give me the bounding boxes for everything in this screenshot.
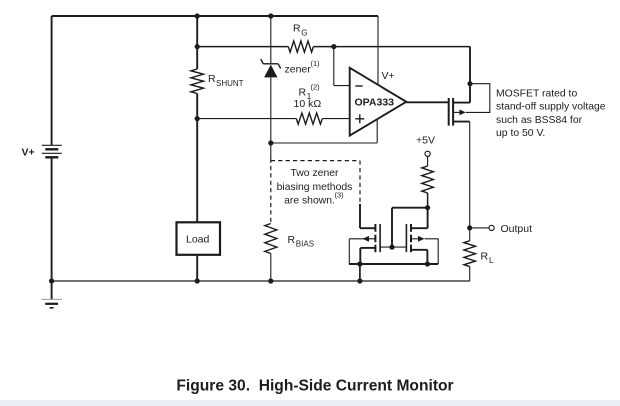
label MOSFET note: [496, 88, 606, 139]
svg-text:Load: Load: [186, 234, 210, 246]
resistor RG: [288, 23, 313, 53]
wire bottom ground rail: [52, 280, 470, 282]
svg-text:R: R: [288, 234, 296, 246]
wire to inverting input: [333, 47, 335, 86]
node top rail / zener branch: [268, 13, 273, 18]
zener diode D1: [261, 59, 320, 77]
svg-text:R: R: [208, 73, 216, 85]
transistor Q2 (mirror left): [349, 224, 380, 252]
wire shunt column: [196, 16, 198, 69]
wire mirror source rail: [349, 263, 438, 265]
svg-text:stand-off supply voltage: stand-off supply voltage: [496, 102, 606, 113]
wire feedback down to MOSFET source: [469, 47, 471, 103]
svg-text:such as BSS84 for: such as BSS84 for: [496, 115, 583, 126]
svg-text:(1): (1): [311, 59, 321, 68]
wire mirror gate feed vertical: [391, 208, 393, 247]
wire RBIAS bottom lead: [270, 254, 272, 282]
wire op-amp output to MOSFET gate: [406, 101, 448, 103]
transistor Q3 (mirror right): [406, 224, 427, 252]
node battery/ground junction: [49, 278, 54, 283]
wire dashed bias method 2 vertical: [359, 161, 361, 204]
svg-text:Figure 30. High-Side Current: Figure 30. High-Side Current Monitor: [176, 378, 453, 395]
node shunt bottom / R1 tap: [195, 116, 200, 121]
wire Q3 drain lead up: [427, 208, 429, 229]
battery V+: [22, 145, 62, 158]
node load / ground rail: [195, 278, 200, 283]
wire dashed bias method 2 horizontal: [271, 160, 360, 162]
resistor R1 10k: [294, 83, 323, 125]
transistor Q1 (BSS84 P-MOSFET): [449, 84, 490, 126]
terminal +5V: [425, 151, 430, 156]
wire zener cathode lead: [270, 16, 272, 64]
node Q2 source: [357, 261, 362, 266]
wire R1 left lead: [197, 118, 296, 120]
node shunt top / RG tap: [195, 44, 200, 49]
wire dashed bias method 1 (RBIAS): [270, 159, 272, 224]
svg-text:Two zener: Two zener: [291, 168, 339, 179]
svg-text:R: R: [293, 23, 301, 35]
wire +5V stem: [427, 156, 429, 166]
wire pullup bottom lead: [427, 193, 429, 208]
node RBIAS / ground rail: [268, 278, 273, 283]
label two zener methods note: [277, 168, 353, 207]
svg-text:V+: V+: [382, 70, 395, 82]
page footer strip: [0, 400, 620, 406]
wire mirror to ground rail: [359, 264, 361, 281]
svg-text:OPA333: OPA333: [355, 97, 395, 109]
svg-text:SHUNT: SHUNT: [216, 79, 244, 88]
op-amp U1 OPA333: [350, 16, 407, 136]
wire R1 right lead to non-inverting input: [322, 118, 350, 120]
node MOSFET body tie: [467, 81, 472, 86]
svg-text:R: R: [481, 251, 489, 263]
node zener anode / V- supply: [268, 140, 273, 145]
wire Q1 body loop: [466, 84, 490, 113]
wire op-amp V- supply: [271, 142, 377, 144]
svg-text:zener: zener: [285, 64, 312, 76]
wire RL bottom lead: [469, 267, 471, 281]
node mirror gates: [389, 245, 394, 250]
pin V+ supply: [377, 16, 379, 85]
wire mirror gate feed horizontal: [392, 207, 428, 209]
resistor R2 (5V pullup): [422, 166, 434, 193]
wire load bottom lead: [196, 255, 198, 281]
wire Q1 drain to output node: [469, 122, 471, 228]
wire zener anode lead: [270, 77, 272, 143]
resistor RBIAS: [265, 224, 314, 254]
resistor RSHUNT: [191, 69, 244, 94]
node mirror drain / pullup: [425, 205, 430, 210]
wire Q2 source down: [359, 248, 361, 264]
svg-text:R: R: [299, 87, 307, 99]
node RG output / inverting input tap: [331, 44, 336, 49]
node mirror / ground rail: [357, 278, 362, 283]
wire RG left lead: [197, 46, 288, 48]
wire output lead: [470, 227, 489, 229]
svg-text:(2): (2): [311, 83, 321, 92]
wire Q2 drain lead up (to dashed): [359, 204, 361, 228]
wire RG right lead to feedback corner: [313, 46, 470, 48]
wire Q3 body loop: [425, 239, 439, 264]
wire mirror gates tie: [380, 246, 406, 248]
svg-text:G: G: [301, 29, 307, 38]
ground: [41, 281, 62, 308]
svg-text:+5V: +5V: [416, 135, 435, 147]
wire top V+ rail: [52, 15, 378, 17]
node Q3 source: [425, 261, 430, 266]
svg-text:10 kΩ: 10 kΩ: [294, 98, 322, 110]
svg-text:L: L: [489, 256, 494, 265]
svg-text:MOSFET rated to: MOSFET rated to: [496, 88, 577, 99]
node top rail / shunt column: [195, 13, 200, 18]
terminal output: [489, 225, 494, 230]
resistor RL: [464, 228, 494, 267]
wire Q2 body loop: [349, 239, 360, 264]
svg-text:are shown.: are shown.: [284, 196, 335, 207]
svg-text:BIAS: BIAS: [296, 240, 314, 249]
svg-text:Output: Output: [501, 223, 533, 235]
node output: [467, 225, 472, 230]
pin - inverting input: [355, 85, 362, 87]
wire battery column: [51, 16, 53, 145]
svg-text:(3): (3): [335, 191, 345, 200]
load box: [177, 222, 221, 255]
pin + non-inverting input: [355, 118, 364, 120]
wire Q3 source down: [426, 250, 428, 264]
svg-text:up to 50 V.: up to 50 V.: [496, 128, 545, 139]
svg-text:V+: V+: [22, 147, 35, 159]
wire zener bias stub: [270, 143, 272, 159]
